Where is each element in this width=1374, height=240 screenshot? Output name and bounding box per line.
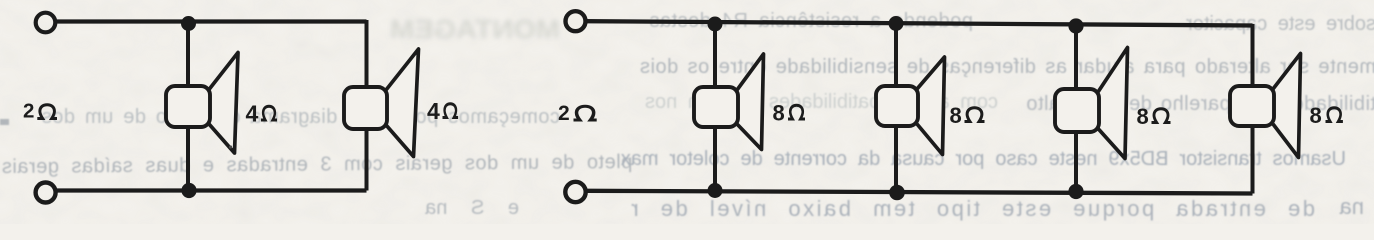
speaker RS4 (8 ohm) <box>1230 54 1301 158</box>
wire branch of speaker RS3 <box>1074 24 1078 193</box>
speaker LS2 (4 ohm) <box>344 49 419 157</box>
terminal (left circuit, top input) <box>36 13 56 33</box>
wire bottom bus (right circuit) <box>586 191 1253 194</box>
wire branch of speaker RS4 <box>1251 24 1255 194</box>
junction node (right circuit, top of RS3) <box>1068 18 1083 33</box>
junction node (right circuit, bottom of RS1) <box>708 183 723 198</box>
label 8Ω (speaker RS2) <box>950 103 985 128</box>
wire branch of speaker LS1 <box>186 22 190 191</box>
wire branch of speaker LS2 <box>365 20 369 191</box>
speaker RS3 (8 ohm) <box>1055 48 1128 159</box>
label 2Ω (right circuit input impedance) <box>558 102 597 125</box>
junction node (right circuit, top of RS1) <box>708 17 723 32</box>
wire branch of speaker RS2 <box>894 23 898 192</box>
svg-text:2: 2 <box>558 102 570 125</box>
junction node (right circuit, bottom of RS3) <box>1068 184 1083 199</box>
label 4Ω (speaker LS2) <box>427 98 458 124</box>
junction node (right circuit, bottom of RS2) <box>889 185 905 201</box>
terminal (left circuit, bottom input) <box>36 183 56 203</box>
svg-text:2: 2 <box>23 100 34 123</box>
svg-text:8: 8 <box>773 101 785 126</box>
terminal (right circuit, top input) <box>566 11 586 31</box>
label 2Ω (left circuit input impedance) <box>23 100 57 123</box>
junction node (left circuit, bottom) <box>181 183 196 198</box>
junction node (right circuit, top of RS2) <box>889 16 904 31</box>
svg-text:8: 8 <box>1137 104 1149 129</box>
label 8Ω (speaker RS3) <box>1137 104 1171 129</box>
label 4Ω (speaker LS1) <box>246 101 278 127</box>
svg-text:8: 8 <box>1310 103 1322 128</box>
wire branch of speaker RS1 <box>713 22 717 191</box>
label 8Ω (speaker RS1) <box>773 101 806 126</box>
speaker RS1 (8 ohm) <box>694 54 764 150</box>
svg-text:4: 4 <box>427 98 440 124</box>
wire top bus (right circuit) <box>586 21 1253 25</box>
svg-text:4: 4 <box>246 101 259 127</box>
wire bottom bus (left circuit) <box>56 188 367 192</box>
svg-text:8: 8 <box>950 103 962 128</box>
speaker RS2 (8 ohm) <box>876 57 945 155</box>
terminal (right circuit, bottom input) <box>565 182 585 202</box>
label 8Ω (speaker RS4) <box>1310 103 1343 128</box>
speaker LS1 (4 ohm) <box>166 53 238 154</box>
junction node (left circuit, top) <box>181 16 196 31</box>
ink artifact dot (inside LS1 cone) <box>229 145 232 148</box>
wire top bus (left circuit) <box>56 19 367 23</box>
